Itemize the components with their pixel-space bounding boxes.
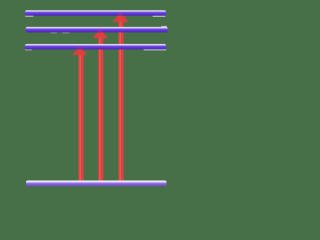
energy level 1 (top line)	[25, 10, 166, 16]
arrow shaft 3 (right)	[118, 18, 124, 186]
white under-streak below level 3 right end	[144, 49, 167, 51]
arrowhead 1 (left, to level 3)	[73, 46, 87, 55]
arrowhead 3 (right, to level 1)	[113, 12, 129, 22]
arrowhead 1 tip overlay on level 3	[76, 46, 83, 49]
energy level 2 (second line)	[26, 27, 168, 33]
ground level (bottom line)	[26, 180, 167, 186]
arrow shaft 2 (middle)	[98, 35, 104, 186]
white under-streak below level 2 middle-right	[62, 32, 70, 33]
white under-streak below level 1 right end	[153, 15, 166, 17]
arrowhead 2 tip overlay on level 2	[97, 29, 104, 33]
white under-streak below level 2 middle-left	[51, 32, 58, 33]
white under-streak below level 1 left end	[25, 15, 34, 16]
energy level 3 (third line)	[25, 44, 166, 50]
white under-streak below level 3 left end	[25, 49, 32, 50]
arrowhead 3 tip overlay on level 1	[117, 12, 124, 16]
arrowhead 2 (middle, to level 2)	[93, 28, 108, 38]
arrow shaft 1 (left)	[78, 52, 84, 186]
white over-streak above level 2 right end	[161, 26, 167, 27]
energy level diagram	[0, 0, 192, 192]
